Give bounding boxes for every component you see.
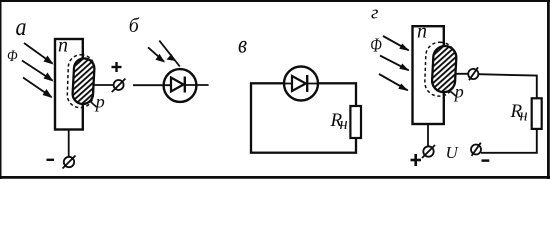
diode triangle (v) (292, 76, 306, 91)
label + (g) (411, 154, 422, 166)
light arrow 1 (b) (148, 47, 165, 62)
label − (a) (47, 159, 55, 161)
svg-text:а: а (16, 14, 27, 41)
light arrow 2 (b) (159, 41, 180, 67)
terminal anode (g) (468, 67, 478, 80)
photodiode VD (circle, v) (284, 67, 318, 101)
svg-text:в: в (238, 32, 247, 59)
frame border (0, 0, 550, 179)
terminal anode (a) (112, 79, 126, 92)
svg-text:п: п (58, 35, 68, 57)
diode cathode bar (v) (306, 75, 308, 92)
cathode wire (g) (427, 125, 429, 147)
wire through photodiode (v) (284, 83, 318, 85)
label + (a) (112, 62, 122, 72)
label R_H (v) (330, 110, 348, 133)
label − (g) (482, 159, 490, 162)
p-region hatched (g) (432, 45, 457, 92)
light arrow 1 (g) (383, 36, 410, 51)
cathode wire (a) (68, 130, 70, 157)
light arrow 3 (g) (379, 74, 409, 91)
terminal minus (g) (471, 143, 481, 156)
diode triangle (b) (171, 78, 184, 92)
svg-text:п: п (417, 21, 427, 43)
svg-text:б: б (129, 15, 140, 37)
label R_H (g) (510, 101, 528, 124)
circuit loop (v) (251, 83, 356, 152)
anode wire (a) (94, 84, 114, 86)
svg-text:г: г (371, 3, 378, 24)
load resistor RH (v) (350, 106, 361, 138)
svg-text:р: р (94, 91, 105, 111)
svg-text:U: U (446, 143, 460, 162)
light arrow 2 (a) (22, 61, 54, 82)
light arrow 3 (a) (23, 78, 53, 99)
load resistor RH (g) (532, 98, 542, 129)
svg-text:р: р (453, 81, 464, 101)
terminal plus (g) (422, 145, 435, 158)
leader line to р label (a) (90, 101, 97, 107)
wire left (b) (133, 84, 173, 86)
light arrow 2 (g) (380, 56, 410, 72)
wire right (b) (184, 84, 209, 86)
svg-text:Ф: Ф (7, 48, 18, 65)
wire resistor bottom to terminal (g) (481, 129, 537, 153)
p-n junction dashed boundary (g) (424, 42, 455, 97)
light arrow 1 (a) (24, 43, 54, 65)
photodiode VD (circle, b) (164, 69, 197, 102)
svg-text:н: н (520, 105, 528, 124)
wire terminal to resistor top (g) (478, 74, 537, 98)
photodiode body VD1 (n-type bar, subfigure a) (55, 39, 83, 130)
terminal cathode (a) (63, 156, 76, 169)
photodiode body VD2 (n-type bar, subfigure g) (413, 26, 444, 124)
leader line to р label (g) (450, 91, 457, 97)
p-n junction dashed boundary (a) (67, 54, 95, 108)
diode cathode bar (b) (184, 77, 186, 93)
anode wire to terminal (g) (455, 73, 469, 75)
svg-text:Ф: Ф (370, 35, 382, 57)
p-region hatched (a) (72, 58, 95, 105)
svg-text:н: н (340, 114, 348, 133)
